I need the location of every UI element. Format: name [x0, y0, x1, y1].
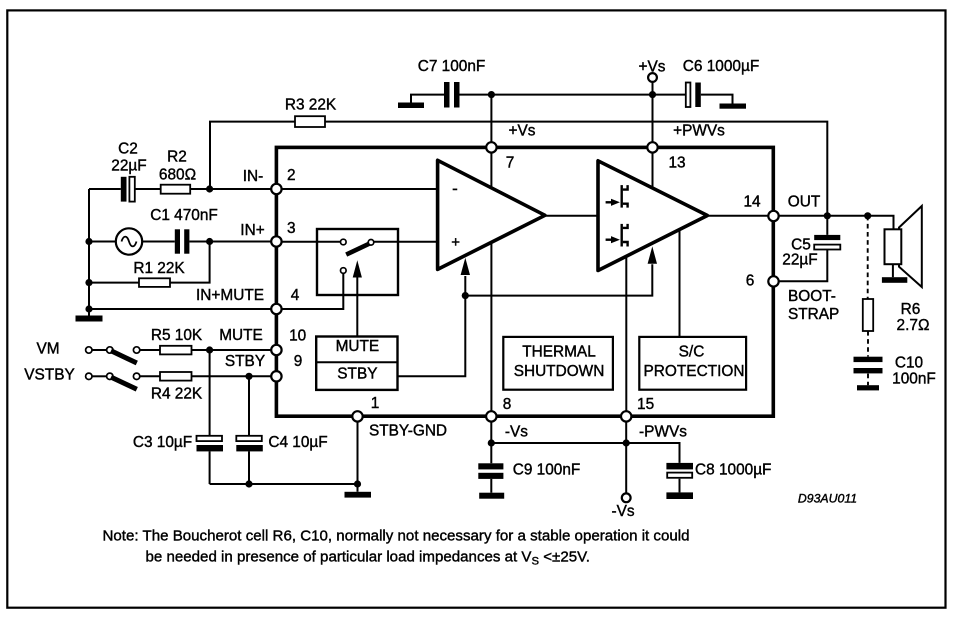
svg-text:22µF: 22µF	[111, 158, 146, 175]
pin 8	[486, 411, 496, 421]
block THERMAL SHUTDOWN	[503, 337, 613, 390]
switch box (mute switch)	[317, 229, 398, 295]
pin 1	[352, 411, 362, 421]
node bias junction	[462, 292, 469, 299]
svg-text:IN+: IN+	[240, 222, 264, 239]
wire left ground rail	[88, 189, 90, 316]
svg-text:10: 10	[289, 328, 306, 345]
wire pin7 supply drop	[490, 95, 492, 146]
wire boucherot dashed	[867, 216, 869, 385]
wire switch to amp +	[374, 241, 437, 243]
svg-text:14: 14	[743, 194, 761, 211]
wire supply pin13 down	[652, 147, 654, 216]
node	[488, 439, 495, 446]
wire gnd bottom	[210, 418, 358, 492]
svg-text:13: 13	[668, 154, 685, 171]
wire pin3 to switch	[282, 241, 341, 243]
resistor R1	[89, 242, 210, 283]
wire top +Vs rail	[411, 95, 733, 104]
svg-text:C9 100nF: C9 100nF	[513, 462, 581, 479]
wire mute arrow into switch box	[356, 277, 358, 337]
switch contact	[341, 239, 347, 245]
svg-text:D93AU011: D93AU011	[798, 492, 857, 506]
svg-text:6: 6	[746, 273, 755, 290]
node IN- junction	[206, 185, 213, 192]
svg-text:22µF: 22µF	[782, 252, 817, 269]
svg-text:PROTECTION: PROTECTION	[644, 363, 745, 380]
node	[85, 279, 92, 286]
capacitor C8	[679, 479, 681, 493]
resistor R3 feedback	[210, 122, 827, 216]
node	[85, 238, 92, 245]
svg-text:C3 10µF: C3 10µF	[133, 434, 192, 451]
transistor M2 glyph	[606, 224, 628, 247]
node	[354, 480, 361, 487]
svg-text:3: 3	[287, 220, 296, 237]
svg-text:+PWVs: +PWVs	[673, 123, 725, 140]
svg-text:VSTBY: VSTBY	[24, 367, 74, 384]
resistor R2	[161, 185, 191, 194]
svg-text:C4 10µF: C4 10µF	[268, 434, 327, 451]
capacitor C9	[490, 479, 492, 493]
svg-text:Note: The Boucherot cell R6, C: Note: The Boucherot cell R6, C10, normal…	[103, 527, 690, 544]
wire IN- input	[89, 188, 271, 190]
wire OUT	[779, 216, 894, 230]
svg-text:680Ω: 680Ω	[159, 166, 196, 183]
svg-text:+Vs: +Vs	[509, 123, 536, 140]
source VIN	[116, 228, 142, 254]
wire IN+ input	[89, 241, 271, 243]
svg-text:R4 22K: R4 22K	[151, 385, 203, 402]
wire pin2 to amp	[282, 188, 437, 190]
transistor M1 glyph	[606, 185, 628, 208]
svg-text:R5 10K: R5 10K	[151, 327, 203, 344]
svg-text:1: 1	[371, 395, 380, 412]
wire -Vs rail	[491, 418, 679, 493]
op-amp A1	[438, 160, 545, 269]
capacitor C5 bootstrap	[779, 216, 828, 281]
pin 15	[621, 411, 631, 421]
switch contact	[368, 240, 374, 246]
pin 2	[271, 184, 281, 194]
arrowhead bias amp1	[461, 258, 470, 275]
node out/load	[864, 212, 871, 219]
svg-text:R2: R2	[167, 148, 187, 165]
node	[85, 305, 92, 312]
resistor R4	[160, 372, 192, 381]
svg-text:-Vs: -Vs	[505, 424, 528, 441]
block MUTE/STBY	[316, 337, 397, 390]
wire amp2 to S/C	[679, 215, 681, 337]
svg-text:C10: C10	[895, 355, 923, 372]
pin 13	[647, 142, 657, 152]
svg-text:MUTE: MUTE	[219, 327, 263, 344]
svg-text:100nF: 100nF	[892, 371, 936, 388]
switch SW1	[86, 347, 92, 353]
svg-text:2: 2	[287, 167, 296, 184]
speaker load	[899, 206, 922, 287]
switch SW2	[86, 373, 92, 379]
svg-text:C2: C2	[118, 141, 138, 158]
svg-text:15: 15	[637, 396, 654, 413]
wire IN+MUTE	[89, 308, 271, 310]
switch lever	[346, 244, 369, 255]
svg-text:8: 8	[503, 396, 512, 413]
capacitor C4	[248, 376, 250, 484]
wire pin4 to switch contact	[282, 273, 344, 309]
node junction at pin13 column	[649, 91, 656, 98]
node mute junction	[206, 346, 213, 353]
capacitor C1	[175, 229, 180, 253]
svg-text:STBY-GND: STBY-GND	[369, 422, 447, 439]
ground C8	[666, 492, 693, 499]
svg-text:be needed in presence of parti: be needed in presence of particular load…	[146, 549, 591, 568]
pin 9	[271, 371, 281, 381]
svg-text:C6 1000µF: C6 1000µF	[683, 58, 759, 75]
svg-text:4: 4	[291, 287, 300, 304]
node stby junction	[245, 373, 252, 380]
terminal -Vs	[622, 493, 631, 502]
svg-text:-Vs: -Vs	[611, 503, 634, 520]
svg-text:R3 22K: R3 22K	[285, 97, 337, 114]
resistor R5	[160, 346, 192, 355]
svg-text:SHUTDOWN: SHUTDOWN	[514, 363, 605, 380]
block S/C PROTECTION	[639, 337, 746, 390]
node junction at pin7 column	[488, 91, 495, 98]
svg-text:MUTE: MUTE	[336, 338, 380, 355]
wire amp2 to pin15	[625, 230, 627, 416]
pin 3	[271, 236, 281, 246]
svg-text:VM: VM	[36, 341, 59, 358]
capacitor C3	[209, 350, 211, 484]
svg-text:-: -	[452, 179, 458, 198]
svg-text:9: 9	[294, 353, 303, 370]
svg-text:STBY: STBY	[225, 353, 265, 370]
svg-text:IN-: IN-	[243, 168, 264, 185]
capacitor C6	[686, 83, 691, 108]
pin 4	[271, 304, 281, 314]
pin 7	[486, 142, 496, 152]
wire stby bias line	[398, 264, 653, 376]
node	[245, 480, 252, 487]
arrowhead bias amp2	[648, 246, 657, 263]
ground C9	[479, 493, 504, 499]
svg-text:2.7Ω: 2.7Ω	[897, 317, 930, 334]
svg-text:BOOT-: BOOT-	[788, 288, 836, 305]
svg-text:R6: R6	[901, 301, 921, 318]
pin 10	[271, 345, 281, 355]
svg-text:STRAP: STRAP	[788, 306, 839, 323]
svg-text:STBY: STBY	[337, 366, 377, 383]
svg-text:-PWVs: -PWVs	[639, 424, 687, 441]
wire supply pin7 to pin8	[490, 147, 492, 416]
ground input rail	[76, 316, 103, 322]
op-amp IC outline TDA	[276, 147, 773, 416]
svg-text:S/C: S/C	[679, 343, 705, 360]
capacitor C2	[121, 177, 127, 202]
svg-text:IN+MUTE: IN+MUTE	[196, 287, 264, 304]
ground C7 side	[398, 103, 424, 109]
node out/feedback	[824, 212, 831, 219]
wire pin13 supply drop	[652, 95, 654, 146]
capacitor C7	[444, 82, 450, 108]
ground C6 side	[720, 104, 747, 109]
switch contact lower	[341, 268, 347, 274]
wire amp1 out to amp2	[545, 215, 598, 217]
svg-text:C7 100nF: C7 100nF	[418, 58, 486, 75]
pin 14	[768, 211, 778, 221]
capacitor C10	[854, 357, 883, 362]
wire amp2 out to pin14	[707, 215, 768, 217]
svg-text:OUT: OUT	[788, 194, 821, 211]
svg-text:C8 1000µF: C8 1000µF	[695, 462, 771, 479]
resistor R6	[863, 299, 873, 331]
svg-text:7: 7	[506, 154, 515, 171]
node	[623, 439, 630, 446]
svg-text:R1 22K: R1 22K	[133, 260, 185, 277]
svg-text:THERMAL: THERMAL	[522, 343, 596, 360]
svg-text:C1 470nF: C1 470nF	[150, 207, 218, 224]
ground C10	[857, 385, 879, 390]
pin 6	[768, 276, 778, 286]
ground speaker	[882, 277, 907, 283]
op-amp power A2	[598, 161, 707, 271]
ground stby	[345, 492, 372, 498]
node IN+ junction	[206, 238, 213, 245]
svg-text:+: +	[451, 234, 460, 251]
